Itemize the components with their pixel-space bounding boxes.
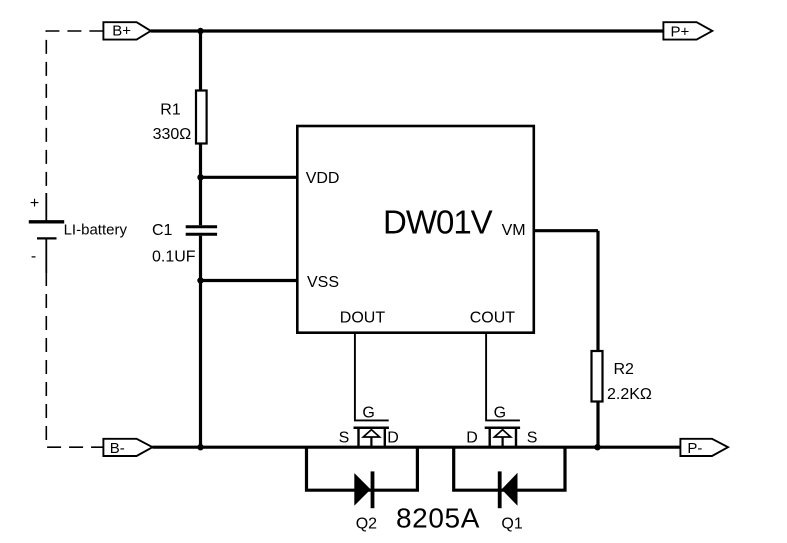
svg-text:DOUT: DOUT — [340, 310, 386, 327]
svg-text:D: D — [387, 429, 399, 446]
svg-text:R2: R2 — [614, 361, 635, 378]
svg-text:C1: C1 — [152, 222, 173, 239]
svg-text:COUT: COUT — [470, 310, 516, 327]
svg-text:Q2: Q2 — [356, 516, 377, 533]
svg-text:B-: B- — [110, 440, 125, 457]
svg-text:P+: P+ — [671, 23, 690, 40]
svg-text:330Ω: 330Ω — [153, 126, 192, 143]
svg-text:P-: P- — [687, 440, 702, 457]
svg-text:0.1UF: 0.1UF — [152, 249, 196, 266]
svg-text:LI-battery: LI-battery — [64, 221, 128, 238]
svg-text:B+: B+ — [112, 23, 131, 40]
svg-text:G: G — [362, 404, 374, 421]
svg-text:VSS: VSS — [307, 274, 339, 291]
svg-text:R1: R1 — [160, 102, 181, 119]
svg-text:DW01V: DW01V — [383, 204, 493, 241]
svg-text:Q1: Q1 — [501, 516, 522, 533]
svg-text:2.2KΩ: 2.2KΩ — [607, 386, 652, 403]
svg-text:8205A: 8205A — [396, 503, 480, 534]
svg-text:S: S — [339, 429, 350, 446]
svg-text:-: - — [31, 248, 36, 265]
svg-text:VDD: VDD — [306, 170, 340, 187]
svg-text:VM: VM — [502, 222, 526, 239]
svg-text:G: G — [494, 404, 506, 421]
svg-text:+: + — [30, 195, 39, 212]
svg-text:D: D — [466, 429, 478, 446]
svg-text:S: S — [527, 429, 538, 446]
